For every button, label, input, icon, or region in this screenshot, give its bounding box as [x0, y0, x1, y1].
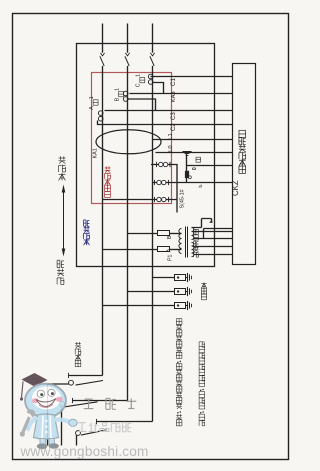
fuse FU2 (phase B tap): [128, 231, 182, 236]
label L1: [168, 133, 174, 139]
wire PT secondary tap up: [192, 219, 214, 228]
wire bus 2 (C1): [151, 76, 233, 78]
pole wire phase C: [152, 66, 154, 422]
disconnect switch QS-A: [48, 373, 104, 446]
label C3: [171, 112, 177, 120]
label KA3: [171, 91, 177, 102]
transformer PT1 secondary winding 1: [192, 228, 194, 240]
svg-text:KA3: KA3: [171, 91, 177, 102]
label: switch body (blue vertical text): [84, 220, 90, 245]
wire bus 3 (KA3): [130, 83, 233, 94]
surge arrester F2 (phase B): [128, 287, 192, 296]
svg-text:KA1: KA1: [92, 148, 98, 158]
breaker contact QF-B: [125, 53, 130, 66]
wire PT out 4: [194, 254, 233, 256]
auxiliary wire with connector P3: [103, 197, 178, 213]
wire PT out 2: [194, 238, 233, 240]
wire bus 7 (L0): [156, 152, 233, 154]
fuse FU1 (phase A tap): [103, 247, 182, 252]
label: A-phase connector: [89, 96, 98, 109]
svg-text:0: 0: [192, 167, 198, 170]
svg-text:www.gongboshi.com: www.gongboshi.com: [20, 444, 149, 459]
label B: [167, 235, 173, 239]
svg-text:b.: b.: [198, 184, 203, 188]
label on bus 8: [192, 157, 201, 170]
watermark text: company name: [84, 398, 137, 409]
transformer PT1 primary winding: [179, 229, 182, 254]
label: disconnect switch (4 chars): [75, 342, 81, 367]
watermark text: mall tag: [78, 422, 132, 431]
transformer PT1 core: [186, 227, 188, 258]
svg-text:B: B: [114, 97, 120, 101]
label: C-phase connector: [136, 74, 145, 87]
svg-text:1: 1: [114, 88, 120, 91]
ground symbol: [183, 152, 192, 156]
breaker contact QF-A: [100, 53, 105, 66]
svg-text:C3: C3: [171, 112, 177, 120]
label: CKZ controller name: [231, 130, 246, 196]
label secondary 2: [194, 241, 199, 257]
interrupter mechanism (ellipse): [96, 130, 161, 154]
svg-text:A: A: [89, 106, 95, 110]
svg-text:1: 1: [136, 74, 142, 77]
direction arrow: [62, 185, 66, 257]
breaker contact QF-C: [150, 53, 155, 66]
label: red enclosure warning text: [105, 166, 111, 197]
wire PT out 1: [194, 231, 233, 233]
connector CN-A (plug pair, phase A): [98, 111, 103, 121]
pole wire phase A: [102, 66, 104, 376]
svg-text:P1: P1: [167, 254, 173, 260]
disconnect switch QS-B: [60, 398, 128, 446]
svg-text:L0: L0: [168, 145, 174, 151]
label P1: [167, 254, 173, 260]
CKZ intelligent controller U1: [233, 64, 256, 265]
disconnect switch QS-C: [76, 419, 153, 446]
transformer PT1 secondary winding 2: [192, 243, 194, 257]
red mechanism enclosure: [92, 73, 172, 204]
svg-text:1: 1: [89, 96, 95, 99]
wire bus 8: [187, 165, 233, 167]
svg-text:C2: C2: [171, 123, 177, 131]
watermark mascot logo: [20, 373, 78, 449]
svg-text:C: C: [136, 83, 142, 87]
wire PT out 0: [204, 229, 233, 239]
svg-text:b: b: [209, 220, 214, 223]
label: load side: [59, 156, 66, 180]
connector P2 on bus 9: [155, 180, 169, 185]
label: source side: [57, 260, 64, 284]
wire bus 4 (C3): [105, 99, 233, 111]
label under bus 9: [198, 184, 203, 188]
surge arrester F1 (phase C): [153, 273, 192, 282]
incoming feeder wire phase A: [102, 24, 104, 53]
wire bus 9: [153, 182, 233, 184]
switch body enclosure box: [77, 44, 215, 267]
svg-text:A: A: [166, 248, 172, 252]
wire PT out 3: [194, 246, 233, 248]
svg-text:S(45-1#: S(45-1#: [180, 189, 186, 208]
suppressor D1 on ground branch: [185, 171, 191, 179]
pole wire phase B: [127, 66, 129, 401]
connector CN-C (plug pair, phase C): [148, 74, 153, 84]
note line 1: [176, 319, 182, 426]
connector wire K1: [151, 162, 177, 200]
wire bus 6 (L1): [153, 139, 233, 141]
wire bus 5 (C2): [98, 121, 233, 125]
label: B-phase connector: [114, 88, 123, 101]
incoming feeder wire phase B: [127, 24, 129, 53]
svg-text:L1: L1: [168, 133, 174, 139]
label C1: [170, 78, 177, 86]
note line 2: [199, 341, 205, 426]
incoming feeder wire phase C: [152, 24, 154, 53]
label L0: [168, 145, 174, 151]
svg-text:B: B: [167, 235, 173, 239]
watermark url: [20, 444, 149, 459]
wire ground branch: [186, 152, 188, 183]
label: surge arrester (3 chars): [201, 282, 206, 299]
surge arrester F3 (phase A): [103, 301, 192, 310]
svg-text:C1: C1: [170, 78, 177, 86]
label secondary 1: [194, 229, 199, 240]
label C2: [171, 123, 177, 131]
label A: [166, 248, 172, 252]
label S(45-1#: [180, 189, 186, 208]
label KA1: [92, 148, 98, 158]
connector CN-B (plug pair, phase B): [123, 91, 128, 101]
